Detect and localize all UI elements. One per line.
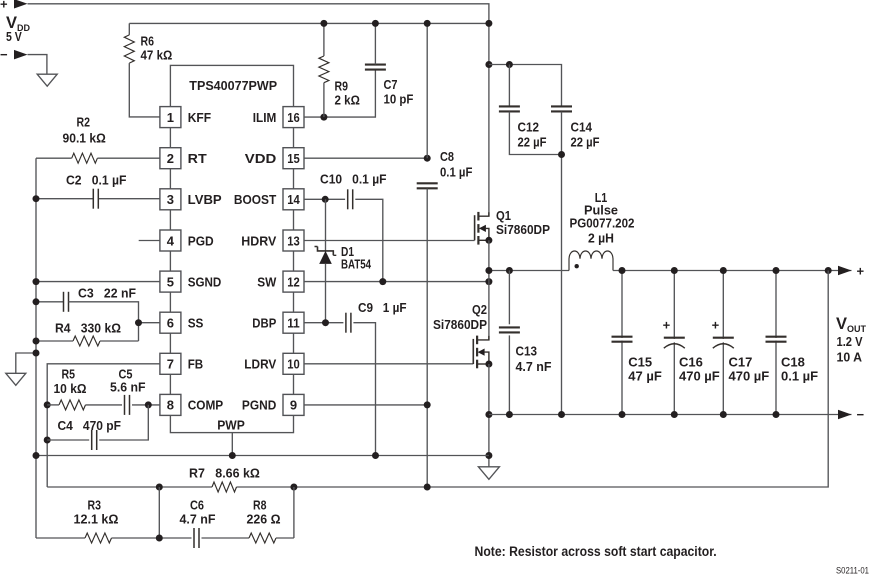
ground (SGND) — [6, 373, 26, 385]
svg-text:FB: FB — [188, 357, 204, 372]
wire: R5 to C5 — [86, 404, 123, 406]
pin 16 name ILIM — [253, 110, 277, 125]
wire: C15 column — [621, 271, 623, 415]
wire: C12 top lead — [508, 65, 510, 107]
svg-text:SGND: SGND — [188, 274, 222, 289]
capacitor C10 — [348, 189, 353, 209]
wire: C14 bottom column to -rail — [561, 112, 563, 415]
svg-text:RT: RT — [188, 151, 207, 166]
label R4 330k — [55, 321, 121, 336]
label C4 470pF — [58, 418, 122, 433]
junction R3/C6 node — [156, 535, 163, 542]
junction C7/VDD rail — [372, 20, 379, 27]
pin 2 name RT — [188, 151, 207, 166]
wire: C16 column — [673, 271, 675, 415]
label TPS40077PWP — [189, 78, 277, 93]
wire: bottom R3 line — [36, 537, 85, 539]
svg-text:4.7 nF: 4.7 nF — [180, 512, 216, 527]
pin 6 box — [160, 312, 181, 333]
capacitor C16 (polarized) — [663, 318, 686, 349]
svg-text:0.1 µF: 0.1 µF — [440, 165, 472, 180]
pin 16 box — [283, 107, 304, 128]
label C2 0.1uF — [66, 173, 127, 188]
pin 13 name HDRV — [241, 233, 276, 248]
op-amp U1 TPS40077PWP body — [170, 65, 293, 432]
pin 15 box — [283, 148, 304, 169]
pin 12 name SW — [257, 274, 277, 289]
label C5 5.6nF — [110, 367, 146, 395]
wire: phase column Q1 source to Q2 drain — [488, 240, 490, 340]
wire: D1 cathode lead — [325, 199, 327, 251]
pin 1 box — [160, 107, 181, 128]
junction C2/left rail — [33, 195, 40, 202]
svg-text:6: 6 — [167, 316, 174, 331]
svg-text:−: − — [0, 47, 8, 62]
wire: C3 right to SS node — [69, 302, 139, 341]
junction gnd rail/left rail — [33, 452, 40, 459]
junction Q2 source — [485, 361, 492, 368]
label Q2 — [433, 302, 487, 332]
label L1 Pulse PG0077.202 2uH — [570, 190, 635, 246]
wire: C13 bottom — [508, 335, 510, 414]
svg-text:C16: C16 — [679, 355, 703, 370]
capacitor C7 — [365, 65, 386, 70]
svg-text:470 µF: 470 µF — [679, 369, 720, 384]
label C8 0.1uF — [440, 149, 472, 180]
junction C14/-rail — [558, 411, 565, 418]
wire: R4 left — [36, 340, 73, 342]
svg-text:2: 2 — [167, 151, 174, 166]
svg-text:15: 15 — [287, 151, 300, 166]
wire: C3 line — [36, 301, 64, 303]
node VOUT+ terminal — [825, 264, 865, 279]
junction C18/-rail — [773, 411, 780, 418]
svg-text:10 pF: 10 pF — [384, 92, 414, 107]
capacitor C5 — [125, 395, 130, 415]
junction ILIM/R9 — [320, 114, 327, 121]
wire: VOUT- rail — [489, 414, 852, 416]
label C6 4.7nF — [180, 498, 216, 527]
svg-text:Q2: Q2 — [472, 302, 487, 317]
junction C16/+rail — [671, 267, 678, 274]
wire: C9 right down to gnd rail — [353, 323, 375, 456]
svg-text:22 µF: 22 µF — [571, 135, 600, 150]
svg-text:S0211-01: S0211-01 — [836, 566, 869, 576]
junction gnd rail/PWP — [229, 452, 236, 459]
svg-text:16: 16 — [287, 110, 300, 125]
capacitor C2 — [93, 189, 98, 209]
junction Q1 source — [485, 237, 492, 244]
wire: ILIM line — [304, 70, 376, 117]
junction C13 top — [506, 267, 513, 274]
pin 7 name FB — [188, 357, 204, 372]
pin 9 box — [283, 394, 304, 415]
svg-text:Si7860DP: Si7860DP — [496, 222, 550, 237]
junction R4/left rail — [33, 338, 40, 345]
wire: LDRV line — [304, 363, 474, 365]
svg-text:11: 11 — [287, 316, 300, 331]
junction phase/L1 line — [485, 267, 492, 274]
label S0211-01 — [836, 566, 869, 576]
label C3 22nF — [78, 286, 136, 301]
svg-text:VDD: VDD — [245, 151, 277, 166]
svg-text:C15: C15 — [628, 355, 652, 370]
svg-text:C9 1 µF: C9 1 µF — [358, 300, 407, 315]
pin 1 name KFF — [188, 110, 211, 125]
wire: HDRV line — [304, 240, 475, 242]
junction SS node — [135, 319, 142, 326]
wire: DBP line — [304, 322, 344, 324]
label C12 22uF — [518, 120, 547, 150]
pin 6 name SS — [188, 316, 204, 331]
wire: C12/C14 top line — [489, 65, 562, 107]
pin 5 box — [160, 271, 181, 292]
svg-text:TPS40077PWP: TPS40077PWP — [189, 78, 277, 93]
pin 14 name BOOST — [234, 192, 276, 207]
wire: PWP pin down — [231, 433, 233, 456]
pin 14 box — [283, 189, 304, 210]
svg-text:VOUT: VOUT — [836, 315, 867, 334]
wire: C8 column bottom — [426, 189, 428, 488]
resistor R7 — [212, 482, 237, 492]
svg-text:2 µH: 2 µH — [588, 231, 614, 246]
svg-text:2 kΩ: 2 kΩ — [335, 93, 360, 108]
capacitor C4 — [92, 430, 97, 450]
svg-text:5.6 nF: 5.6 nF — [110, 380, 146, 395]
wire: C18 column — [775, 271, 777, 415]
label C16 470 &#181;F — [679, 355, 720, 384]
label C18 0.1 &#181;F — [781, 355, 818, 384]
svg-text:9: 9 — [290, 398, 297, 413]
svg-text:C3 22 nF: C3 22 nF — [78, 286, 136, 301]
junction SW/C10 — [379, 278, 386, 285]
resistor R6 — [124, 35, 134, 63]
junction SGND/left rail — [33, 278, 40, 285]
label D1 BAT54 — [341, 244, 372, 272]
label Q1 — [496, 208, 550, 237]
wire: R9 bottom — [323, 83, 325, 117]
wire: BOOST line — [304, 198, 345, 200]
svg-text:PG0077.202: PG0077.202 — [570, 216, 635, 231]
svg-text:470 µF: 470 µF — [729, 369, 770, 384]
node VDD+ input terminal — [0, 0, 28, 12]
svg-text:PWP: PWP — [217, 418, 245, 433]
capacitor C3 — [64, 292, 69, 312]
label VOUT 1.2V 10A — [836, 315, 867, 365]
transistor Q2 Si7860DP — [473, 336, 489, 369]
svg-text:C12: C12 — [518, 120, 540, 135]
wire: R9 top — [323, 23, 325, 56]
junction BOOST/D1 — [322, 196, 329, 203]
junction C15/+rail — [619, 267, 626, 274]
svg-text:1: 1 — [167, 110, 174, 125]
svg-text:LVBP: LVBP — [188, 192, 222, 207]
svg-text:R7 8.66 kΩ: R7 8.66 kΩ — [189, 466, 260, 481]
wire: 5V top rail — [28, 4, 489, 24]
junction C3/left rail — [33, 298, 40, 305]
svg-text:ILIM: ILIM — [253, 110, 277, 125]
wire: VDD pin 15 line — [304, 157, 427, 159]
wire: bottom gnd rail — [36, 455, 489, 457]
label R2 90.1k — [63, 115, 106, 146]
wire: R6 bottom to pin 1 — [129, 63, 160, 117]
wire: R3 to C6 — [112, 537, 192, 539]
junction R9/VDD rail — [320, 20, 327, 27]
svg-text:4: 4 — [167, 233, 175, 248]
svg-text:1.2 V: 1.2 V — [837, 334, 863, 349]
ground (input) — [37, 74, 57, 86]
wire: C7 top — [374, 23, 376, 64]
label C14 22uF — [571, 120, 600, 150]
wire: C13 column — [508, 271, 510, 325]
svg-text:47 kΩ: 47 kΩ — [141, 48, 173, 63]
wire: C4 line — [47, 439, 89, 441]
node VDD- input terminal — [0, 47, 28, 62]
svg-text:R9: R9 — [335, 79, 349, 94]
junction gnd branch/left rail — [33, 350, 40, 357]
junction VDD/C8 — [424, 155, 431, 162]
label R3 12.1k — [74, 498, 119, 527]
svg-text:226 Ω: 226 Ω — [247, 512, 281, 527]
junction FB line/R3C6 branch — [156, 484, 163, 491]
transistor Q1 Si7860DP — [475, 212, 489, 245]
label R5 10k — [54, 367, 87, 397]
svg-text:14: 14 — [287, 192, 300, 207]
junction C8 col/VDD rail — [424, 20, 431, 27]
junction C8 col/feedback line — [424, 484, 431, 491]
svg-text:Q1: Q1 — [496, 208, 511, 223]
svg-text:PGD: PGD — [188, 233, 214, 248]
label C7 10pF — [384, 77, 414, 107]
resistor R8 — [249, 533, 276, 543]
svg-text:C14: C14 — [571, 120, 593, 135]
svg-text:−: − — [857, 407, 865, 422]
junction SW/phase col — [485, 278, 492, 285]
pin 9 name PGND — [242, 398, 276, 413]
resistor R9 — [319, 56, 329, 83]
pin 3 name LVBP — [188, 192, 222, 207]
wire: FB line pin 7 — [47, 364, 160, 487]
svg-text:C7: C7 — [384, 77, 398, 92]
label R6 47k — [141, 34, 173, 63]
wire: D1 anode lead — [325, 264, 327, 323]
label C10 0.1uF — [320, 172, 387, 187]
svg-text:C18: C18 — [781, 355, 805, 370]
pin 4 box — [160, 230, 181, 251]
pin 3 box — [160, 189, 181, 210]
capacitor C8 — [417, 183, 438, 188]
wire: VDD column to Q1 drain — [488, 23, 490, 216]
svg-text:8: 8 — [167, 398, 174, 413]
capacitor C17 (polarized) — [712, 318, 735, 349]
capacitor C18 — [765, 337, 787, 342]
wire: phase line to L1 — [489, 270, 569, 272]
svg-text:DBP: DBP — [252, 316, 276, 331]
svg-text:BAT54: BAT54 — [341, 257, 372, 272]
wire: C12 bottom lead — [509, 112, 561, 155]
wire: VDD- to ground — [28, 55, 47, 75]
capacitor C12 — [499, 106, 520, 111]
resistor R4 — [73, 336, 100, 346]
junction Q2 source/-rail — [485, 411, 492, 418]
wire: VOUT+ rail — [613, 270, 852, 272]
svg-text:C17: C17 — [729, 355, 753, 370]
svg-text:LDRV: LDRV — [244, 357, 276, 372]
svg-text:22 µF: 22 µF — [518, 135, 547, 150]
svg-text:C6: C6 — [190, 498, 204, 513]
pin 10 box — [283, 353, 304, 374]
junction DBP/D1 — [322, 319, 329, 326]
capacitor C15 — [611, 337, 633, 342]
label R7 8.66k — [189, 466, 260, 481]
pin 15 name VDD — [245, 151, 277, 166]
pin 8 box — [160, 394, 181, 415]
wire: left rail x36 — [35, 158, 37, 538]
svg-text:12.1 kΩ: 12.1 kΩ — [74, 512, 119, 527]
wire: C5 to pin 8 — [132, 404, 160, 406]
svg-text:R6: R6 — [141, 34, 155, 49]
capacitor C14 — [551, 106, 572, 111]
svg-text:KFF: KFF — [188, 110, 211, 125]
svg-text:R2: R2 — [77, 115, 91, 130]
svg-text:10: 10 — [287, 357, 300, 372]
junction C12 top — [506, 61, 513, 68]
wire: C4 right up to COMP — [99, 405, 148, 440]
junction C16/-rail — [671, 411, 678, 418]
svg-text:+: + — [0, 0, 8, 12]
label R9 2k — [335, 79, 360, 108]
svg-text:5 V: 5 V — [6, 29, 22, 44]
svg-text:R5: R5 — [62, 367, 76, 382]
wire: Q2 source to ground — [488, 364, 490, 467]
pin 12 box — [283, 271, 304, 292]
wire: R2 left — [36, 157, 72, 159]
wire: SGND line — [36, 281, 160, 283]
svg-text:4.7 nF: 4.7 nF — [516, 359, 552, 374]
capacitor C13 — [499, 327, 520, 332]
label VDD 5V — [6, 14, 31, 44]
svg-text:10 A: 10 A — [837, 350, 863, 365]
wire: C2 right — [98, 198, 160, 200]
junction C13/-rail — [506, 411, 513, 418]
junction gnd rail end — [485, 452, 492, 459]
svg-text:C8: C8 — [440, 149, 454, 164]
wire: R8 right corner — [276, 537, 294, 539]
wire: pin 4 PGD stub — [139, 240, 160, 242]
inductor L1 — [569, 251, 613, 271]
svg-text:SW: SW — [257, 274, 277, 289]
junction FB/C4 — [44, 437, 51, 444]
junction C15/-rail — [619, 411, 626, 418]
junction PGND/C8 col — [424, 401, 431, 408]
wire: C10 right to SW — [355, 199, 383, 281]
diode D1 BAT54 — [315, 247, 337, 264]
pin 7 box — [160, 353, 181, 374]
pin 4 name PGD — [188, 233, 214, 248]
label C17 470 &#181;F — [729, 355, 770, 384]
junction VDD col / C12-C14 line — [485, 61, 492, 68]
wire: VOUT feedback sense line left — [47, 486, 212, 488]
junction VDD rail / column — [485, 20, 492, 27]
svg-text:5: 5 — [167, 274, 174, 289]
ground (power) — [478, 467, 499, 480]
pin 11 name DBP — [252, 316, 276, 331]
wire: VOUT feedback sense line right — [237, 271, 829, 488]
capacitor C6 — [194, 528, 199, 548]
svg-text:7: 7 — [167, 357, 174, 372]
svg-text:+: + — [663, 318, 671, 333]
pin 13 box — [283, 230, 304, 251]
label C15 47 &#181;F — [628, 355, 662, 384]
wire: R4 right — [100, 340, 139, 342]
svg-text:0.1 µF: 0.1 µF — [781, 369, 818, 384]
resistor R5 — [59, 400, 86, 410]
capacitor C9 — [346, 313, 351, 333]
wire: R8 column — [293, 487, 295, 538]
wire: VDD horizontal rail y23 — [129, 22, 489, 24]
label C13 4.7nF — [516, 344, 552, 375]
svg-text:Note: Resistor across soft sta: Note: Resistor across soft start capacit… — [475, 544, 717, 559]
svg-text:PGND: PGND — [242, 398, 276, 413]
pin 5 name SGND — [188, 274, 222, 289]
svg-text:+: + — [857, 264, 865, 279]
svg-text:C2 0.1 µF: C2 0.1 µF — [66, 173, 127, 188]
svg-text:12: 12 — [287, 274, 300, 289]
wire: SS line to pin 6 — [139, 322, 161, 324]
resistor R3 — [85, 533, 112, 543]
pin 2 box — [160, 148, 181, 169]
wire: SW pin line — [304, 281, 489, 283]
wire: C17 column — [722, 271, 724, 415]
wire: C6 to R8 — [202, 537, 250, 539]
junction FB/R5 — [44, 401, 51, 408]
resistor R2 — [72, 153, 98, 163]
wire: left rail ground branch — [16, 353, 36, 373]
junction R8 top — [290, 484, 297, 491]
wire: R2 right to pin 2 — [97, 157, 160, 159]
junction C17/-rail — [720, 411, 727, 418]
svg-text:C13: C13 — [516, 344, 538, 359]
svg-text:+: + — [712, 318, 720, 333]
svg-text:13: 13 — [287, 233, 300, 248]
svg-text:COMP: COMP — [188, 398, 224, 413]
wire: R3/C6 branch down — [158, 487, 160, 538]
svg-text:C4 470 pF: C4 470 pF — [58, 418, 122, 433]
node VOUT- terminal — [838, 407, 865, 422]
svg-text:HDRV: HDRV — [241, 233, 276, 248]
wire: PGND line — [304, 404, 427, 406]
label PWP — [217, 418, 245, 433]
junction gnd rail/C9 — [372, 452, 379, 459]
svg-text:47 µF: 47 µF — [628, 369, 662, 384]
svg-text:R3: R3 — [88, 498, 102, 513]
label C9 1uF — [358, 300, 407, 315]
svg-text:SS: SS — [188, 316, 204, 331]
junction C17/+rail — [720, 267, 727, 274]
svg-text:90.1 kΩ: 90.1 kΩ — [63, 131, 106, 146]
junction C18/+rail — [773, 267, 780, 274]
note text — [475, 544, 717, 559]
svg-text:C10 0.1 µF: C10 0.1 µF — [320, 172, 387, 187]
pin 10 name LDRV — [244, 357, 276, 372]
svg-text:Si7860DP: Si7860DP — [433, 317, 487, 332]
wire: C8 column top — [426, 23, 428, 158]
pin 8 name COMP — [188, 398, 224, 413]
wire: C2 left — [36, 198, 93, 200]
junction COMP node — [145, 401, 152, 408]
pin 11 box — [283, 312, 304, 333]
wire: R6 top corner — [128, 23, 130, 35]
